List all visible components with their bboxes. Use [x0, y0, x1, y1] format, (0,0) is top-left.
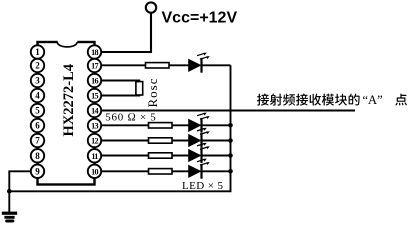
svg-text:6: 6: [35, 121, 40, 131]
pin 2: [31, 59, 44, 72]
pin 10: [88, 165, 101, 178]
LED D3 triangle: [189, 135, 200, 146]
svg-text:15: 15: [91, 92, 98, 101]
LED D4 emission arrows: [197, 143, 210, 150]
svg-text:“A”: “A”: [363, 93, 383, 107]
svg-text:10: 10: [91, 167, 98, 176]
pin 12: [88, 134, 101, 147]
svg-text:17: 17: [91, 62, 98, 71]
LED D1 triangle: [189, 60, 200, 71]
label: to point A of RF receiver module: [257, 93, 407, 107]
resistor 560ohm R5/LED5 (pin10): [149, 169, 173, 174]
svg-text:11: 11: [91, 152, 98, 161]
svg-text:18: 18: [91, 48, 98, 57]
pin 7: [31, 134, 44, 147]
pin 8: [31, 149, 44, 162]
pin 16: [88, 74, 101, 87]
Vcc terminal circle: [146, 2, 156, 12]
wire resistor to LED row2: [172, 124, 189, 126]
svg-text:16: 16: [91, 77, 98, 86]
wire pin to resistor row3: [98, 140, 149, 142]
resistor Rosc: [136, 82, 143, 95]
svg-text:3: 3: [35, 76, 40, 86]
svg-text:13: 13: [91, 122, 98, 131]
resistor 560ohm R4/LED4 (pin11): [149, 153, 173, 158]
pin 14: [88, 104, 101, 117]
pin 4: [31, 89, 44, 102]
wire LED to bus row4: [202, 155, 231, 157]
LED D2 emission arrows: [197, 113, 210, 120]
LED D1 emission arrows: [197, 53, 210, 60]
svg-text:4: 4: [35, 91, 40, 101]
wire pin15 to Rosc: [98, 94, 140, 96]
svg-text:560 Ω × 5: 560 Ω × 5: [105, 111, 156, 123]
junction on bus y=155.5: [228, 153, 233, 158]
svg-text:8: 8: [35, 151, 40, 161]
LED D2 triangle: [189, 120, 200, 131]
wire pin18 to Vcc: [98, 13, 151, 52]
pin 3: [31, 74, 44, 87]
svg-text:HX2272-L4: HX2272-L4: [61, 64, 77, 137]
pin 9: [31, 165, 44, 178]
wire resistor to LED row3: [172, 140, 189, 142]
junction on bus y=171.3: [228, 169, 233, 174]
wire LED to bus row2: [202, 124, 231, 126]
wire pin to resistor row4: [98, 155, 149, 157]
resistor 560ohm R3/LED3 (pin12): [149, 138, 173, 143]
svg-text:5: 5: [35, 106, 40, 116]
svg-text:12: 12: [91, 137, 98, 146]
wire resistor to LED row1: [169, 64, 189, 66]
svg-text:14: 14: [91, 107, 98, 116]
wire pin to resistor row1: [98, 64, 146, 66]
IC U1 HX2272-L4 body: [38, 42, 95, 185]
wire LED cathode bus: [9, 65, 230, 191]
junction on bus y=125.3: [228, 123, 233, 128]
junction on bus y=140.5: [228, 138, 233, 143]
svg-text:Vcc=+12V: Vcc=+12V: [162, 10, 238, 27]
LED D5 emission arrows: [197, 159, 210, 166]
wire LED to bus row1: [202, 64, 231, 66]
wire pin to resistor row2: [98, 124, 149, 126]
LED D4 cathode bar: [200, 148, 202, 163]
wire pin14 to point A (net A): [98, 109, 355, 111]
LED D4 triangle: [189, 150, 200, 161]
wire resistor to LED row5: [172, 170, 189, 172]
junction ground return: [7, 189, 12, 194]
svg-text:1: 1: [35, 47, 40, 57]
IC notch: [58, 40, 78, 43]
svg-text:Rosc: Rosc: [145, 78, 160, 108]
wire resistor to LED row4: [172, 155, 189, 157]
wire pin16 to Rosc: [98, 81, 140, 83]
pin 11: [88, 149, 101, 162]
wire pin9 to ground: [9, 171, 31, 212]
pin 17: [88, 59, 101, 72]
pin 5: [31, 104, 44, 117]
pin 1: [31, 45, 44, 58]
svg-text:9: 9: [35, 167, 40, 177]
LED D2 cathode bar: [200, 118, 202, 133]
LED D5 cathode bar: [200, 164, 202, 179]
pin 15: [88, 89, 101, 102]
svg-text:7: 7: [35, 136, 40, 146]
LED D3 emission arrows: [197, 128, 210, 135]
ground symbol: [2, 213, 17, 221]
wire LED to bus row5: [202, 170, 231, 172]
LED D3 cathode bar: [200, 133, 202, 148]
svg-text:LED × 5: LED × 5: [182, 180, 223, 192]
resistor 560ohm R1/LED1 (pin17): [146, 63, 170, 68]
svg-text:2: 2: [35, 61, 40, 71]
LED D5 triangle: [189, 166, 200, 177]
wire LED to bus row3: [202, 140, 231, 142]
pin 13: [88, 119, 101, 132]
LED D1 cathode bar: [200, 58, 202, 73]
wire pin to resistor row5: [98, 170, 149, 172]
pin 18: [88, 45, 101, 58]
resistor 560ohm R2/LED2 (pin13): [149, 123, 173, 128]
pin 6: [31, 119, 44, 132]
